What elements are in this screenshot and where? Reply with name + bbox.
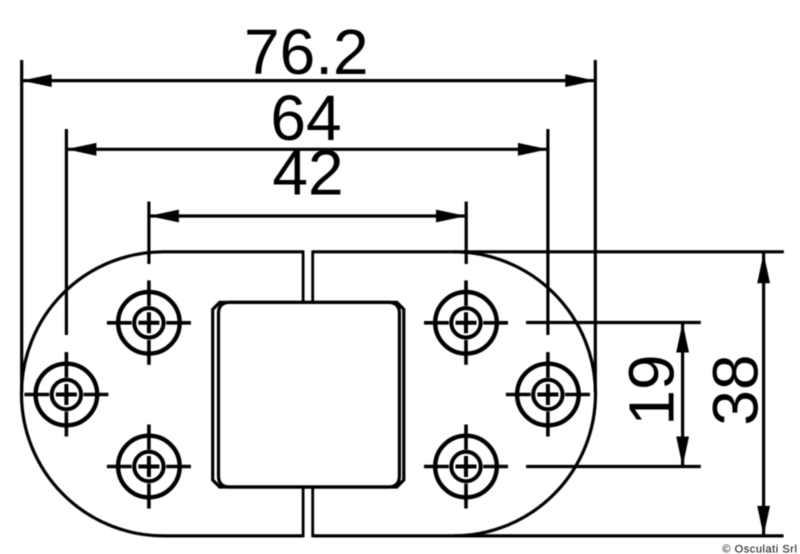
hole H4 crosshair vertical lower — [464, 340, 468, 365]
hole H1 center plus — [138, 312, 159, 333]
svg-text:76.2: 76.2 — [244, 16, 369, 88]
dimension 42 left arrowhead — [149, 210, 179, 223]
hole H1 inner top-left: outer circle — [118, 292, 180, 354]
svg-text:38: 38 — [699, 354, 771, 425]
hinge body left leaf top edge — [164, 250, 304, 253]
dimension 64 dimension line — [66, 148, 548, 151]
hole H4 center plus — [456, 312, 477, 333]
hole H5 crosshair horizontal — [506, 393, 590, 397]
hole H1 crosshair horizontal — [107, 321, 191, 325]
hole H4 crosshair horizontal — [424, 321, 508, 325]
dimension 19 bottom arrowhead — [676, 437, 689, 467]
hole H5 crosshair vertical upper — [546, 352, 550, 378]
dimension 64 right arrowhead — [518, 143, 548, 156]
hole H3 crosshair horizontal — [107, 465, 191, 469]
hole H2 inner circle — [52, 380, 81, 409]
knuckle square outer chamfered rect — [213, 302, 404, 487]
dimension 38 dimension line — [762, 253, 765, 536]
dimension 64 left arrowhead — [66, 143, 96, 156]
dimension 19 top extension line — [526, 321, 701, 324]
dimension 38 bottom arrowhead — [757, 506, 770, 536]
hinge body right leaf gap edge lower — [311, 487, 314, 537]
hole H3 center plus — [138, 456, 159, 477]
hinge body right leaf cap arc — [454, 252, 596, 536]
svg-text:19: 19 — [615, 354, 687, 425]
svg-text:42: 42 — [272, 137, 343, 209]
hinge body left leaf cap arc — [21, 252, 163, 536]
dimension 42 left extension line — [147, 202, 150, 265]
hole H3 inner bottom-left: outer circle — [118, 436, 180, 498]
hole H6 inner bottom-right: outer circle — [435, 436, 497, 498]
hole H1 crosshair vertical lower — [147, 340, 151, 365]
dimension 19 dimension line — [681, 323, 684, 467]
knuckle square inner rounded rect — [219, 302, 400, 487]
dimension 38 top arrowhead — [757, 253, 770, 283]
hole H3 inner circle — [134, 452, 163, 481]
hole H2 crosshair vertical upper — [65, 352, 69, 378]
hinge body left leaf bottom edge — [164, 534, 304, 537]
dimension 76.2 dimension line — [22, 79, 596, 82]
hole H3 crosshair vertical — [147, 425, 151, 509]
hole H6 crosshair horizontal — [424, 465, 508, 469]
hole H2 crosshair vertical lower — [65, 412, 69, 437]
svg-text:© Osculati Srl: © Osculati Srl — [722, 543, 797, 554]
dimension 76.2 left arrowhead — [22, 74, 52, 87]
dimension 42 right arrowhead — [436, 210, 466, 223]
hole H5 crosshair vertical lower — [546, 412, 550, 437]
dimension 76.2 left extension line — [20, 60, 23, 392]
hole H5 center plus — [537, 384, 558, 405]
hinge body right leaf gap edge upper — [311, 250, 314, 302]
hole H4 inner top-right: outer circle — [435, 292, 497, 354]
hole H2 center plus — [56, 384, 77, 405]
hole H6 crosshair vertical — [464, 425, 468, 509]
hole H5 inner circle — [533, 380, 562, 409]
hinge body left leaf gap edge lower — [302, 487, 305, 537]
hole H5 outer mid-right: outer circle — [517, 364, 579, 426]
dimension 64 right extension line — [546, 129, 549, 335]
hole H4 crosshair vertical upper — [464, 280, 468, 306]
hole H4 inner circle — [451, 308, 480, 337]
hole H2 outer mid-left: outer circle — [36, 364, 98, 426]
dimension 76.2 right extension line — [594, 60, 597, 392]
dimension 64 left extension line — [65, 129, 68, 335]
hole H1 inner circle — [134, 308, 163, 337]
dimension 42 dimension line — [149, 214, 466, 217]
hinge body right leaf bottom edge plus 38-dim extension line — [313, 534, 784, 537]
hinge body right leaf top edge plus 38-dim extension line — [313, 250, 784, 253]
dimension 42 right extension line — [465, 202, 468, 265]
dimension 76.2 right arrowhead — [565, 74, 595, 87]
hole H2 crosshair horizontal — [24, 393, 108, 397]
hole H6 inner circle — [451, 452, 480, 481]
dimension 19 top arrowhead — [676, 323, 689, 353]
hole H6 center plus — [456, 456, 477, 477]
dimension 19 bottom extension line — [526, 465, 701, 468]
hinge body left leaf gap edge upper — [302, 250, 305, 302]
hole H1 crosshair vertical upper — [147, 280, 151, 306]
